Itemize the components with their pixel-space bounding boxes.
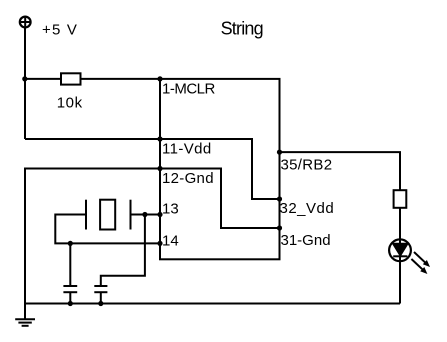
pin 11 dot [157, 136, 162, 141]
IC U1 body [160, 79, 280, 259]
pin 35 dot [277, 150, 282, 155]
junction crystal/C2 [142, 212, 147, 217]
crystal X1 right plate [130, 200, 132, 230]
wire R2 to LED [399, 208, 401, 244]
svg-text:11-Vdd: 11-Vdd [162, 140, 212, 157]
junction C1/ground rail [68, 301, 73, 306]
crystal X1 body [100, 200, 115, 230]
svg-text:35/RB2: 35/RB2 [281, 157, 333, 174]
LED D1 [389, 239, 430, 274]
svg-text:12-Gnd: 12-Gnd [162, 170, 214, 187]
power terminal +5V [20, 17, 31, 28]
resistor R1 10k [61, 73, 81, 84]
junction +5V/R1 [22, 76, 27, 81]
pin 1 dot [157, 76, 162, 81]
svg-text:32_Vdd: 32_Vdd [280, 200, 335, 217]
pin 32 dot [277, 196, 282, 201]
wire rail to resistor R1 [25, 78, 61, 80]
wire node OSC1 to capacitor C2 [101, 215, 145, 287]
svg-text:10k: 10k [57, 95, 83, 112]
svg-text:+5 V: +5 V [42, 21, 78, 38]
junction crystal/C1 [68, 241, 73, 246]
pin 12 dot [157, 166, 162, 171]
pin 13 dot [157, 212, 162, 217]
svg-text:14: 14 [162, 233, 179, 250]
wire Vdd net pin11 to pin32 [160, 139, 280, 199]
pin 31 dot [277, 225, 282, 230]
wire R1 to pin 1-MCLR [81, 78, 161, 80]
ground [15, 304, 35, 326]
wire LED to ground rail [399, 256, 401, 303]
capacitor C2 [94, 286, 107, 304]
wire +5V rail down from terminal [24, 27, 26, 139]
svg-text:13: 13 [162, 201, 179, 218]
wire crystal left to pin 14 [55, 215, 160, 244]
junction C2/ground rail [98, 301, 103, 306]
wire 12-Gnd to ground rail [25, 169, 160, 304]
svg-text:String: String [221, 19, 263, 39]
wire crystal right to pin 13 [131, 214, 161, 216]
svg-text:1-MCLR: 1-MCLR [162, 80, 216, 97]
crystal X1 left plate [85, 200, 87, 230]
pin 14 dot [157, 241, 162, 246]
svg-text:31-Gnd: 31-Gnd [281, 232, 331, 249]
resistor R2 [394, 190, 407, 208]
wire 11-Vdd to +5V rail [25, 138, 160, 140]
capacitor C1 [63, 243, 77, 303]
wire pin 35/RB2 to resistor R2 [280, 152, 401, 190]
wire ground rail [25, 303, 400, 305]
wire Gnd net pin12 to pin31 [160, 169, 280, 229]
